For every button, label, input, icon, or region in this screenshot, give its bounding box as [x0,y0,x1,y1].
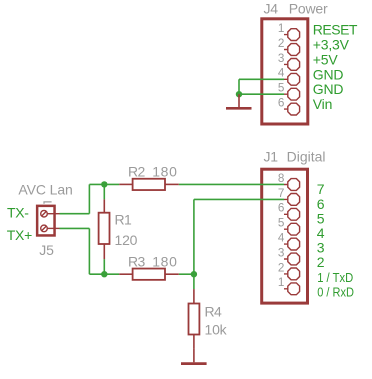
svg-text:1: 1 [278,276,285,289]
J1 pin 4 [284,238,300,250]
resistor R4 [189,289,200,349]
svg-text:Digital: Digital [287,149,326,165]
svg-text:2: 2 [317,254,325,270]
wire vertical up to J1 pin 7 [193,199,195,274]
connector J5 box [37,206,54,236]
svg-text:4: 4 [278,232,285,245]
wire TX+ to R3 [89,273,119,275]
connector J1 box [262,169,308,303]
wire R1 top [103,184,105,199]
svg-text:AVC Lan: AVC Lan [18,182,72,198]
wire R1 bottom [103,259,105,274]
svg-text:R1: R1 [115,211,133,227]
junction R3 / R4 / pin7 net [191,271,197,277]
resistor R1 [99,199,110,259]
svg-text:J1: J1 [264,149,279,165]
wire down to R4 [193,274,195,289]
J1 pin 5 [284,223,300,235]
svg-text:J5: J5 [39,242,54,258]
svg-text:TX-: TX- [7,205,29,221]
svg-text:2: 2 [278,261,285,274]
J1 pin 1 [284,283,300,295]
ground symbol under R4 [181,349,207,364]
J1 pin 3 [284,253,300,265]
J4 pin 6 [284,103,300,115]
connector J4 box [262,19,308,124]
svg-text:1 / TxD: 1 / TxD [317,270,353,285]
resistor R2 [119,179,179,190]
svg-text:3: 3 [278,52,285,65]
wire vertical GND drop [238,79,240,94]
svg-text:6: 6 [278,202,285,215]
J4 pin 4 [284,73,300,85]
svg-text:7: 7 [278,187,285,200]
J4 pin 3 [284,59,300,71]
J4 pin 2 [284,44,300,56]
svg-text:5: 5 [317,210,325,226]
svg-text:180: 180 [152,254,177,270]
J1 pin 2 [284,268,300,280]
svg-text:7: 7 [317,181,325,197]
svg-text:4: 4 [278,67,285,80]
J1 pin 8 [284,179,300,191]
junction TX+ / R1 / R3 [101,271,107,277]
svg-text:10k: 10k [205,321,228,337]
svg-text:6: 6 [317,196,325,212]
wire TX- to R2 [89,183,119,185]
J4 pin 1 [284,29,300,41]
J4 pin 5 [284,88,300,100]
svg-text:8: 8 [278,172,285,185]
svg-text:0 / RxD: 0 / RxD [317,284,354,299]
wire from J4 pin 5 [239,93,284,95]
svg-text:+5V: +5V [313,51,339,67]
resistor R3 [119,269,179,280]
svg-text:1: 1 [278,22,285,35]
J1 pin 7 [284,194,300,206]
svg-text:3: 3 [317,240,325,256]
wire TX+ vertical drop [88,228,90,274]
svg-text:R2: R2 [128,164,146,180]
svg-text:GND: GND [313,81,344,97]
svg-text:5: 5 [278,217,285,230]
wire R2 to J1 pin 8 [179,183,284,185]
svg-text:2: 2 [278,37,285,50]
svg-text:RESET: RESET [313,22,358,38]
wire from J4 pin 4 [239,78,284,80]
wire R3 to junction [179,273,194,275]
wire TX- vertical riser [88,184,90,213]
junction TX- / R1 / R2 [101,181,107,187]
wire TX- from J5 [60,213,90,215]
J1 pin 6 [284,208,300,220]
svg-text:GND: GND [313,66,344,82]
svg-text:3: 3 [278,246,285,259]
svg-text:R4: R4 [205,303,223,319]
ground symbol near J4 [226,94,252,108]
svg-text:+3,3V: +3,3V [313,37,350,53]
svg-text:6: 6 [278,97,285,110]
wire TX+ from J5 [60,227,90,229]
svg-text:Power: Power [289,0,328,16]
J5 pin 2 screw terminal [41,225,60,232]
svg-text:J4: J4 [264,0,279,16]
svg-text:Vin: Vin [313,96,332,112]
wire to J1 pin 7 [194,198,284,200]
svg-text:4: 4 [317,225,325,241]
svg-text:R3: R3 [128,254,146,270]
svg-text:5: 5 [278,82,285,95]
svg-text:180: 180 [152,164,177,180]
connector J5 top tick mark [44,202,52,204]
J5 pin 1 screw terminal [41,210,60,217]
svg-text:120: 120 [115,232,138,248]
svg-text:TX+: TX+ [7,227,32,243]
junction at GND net [236,91,242,97]
